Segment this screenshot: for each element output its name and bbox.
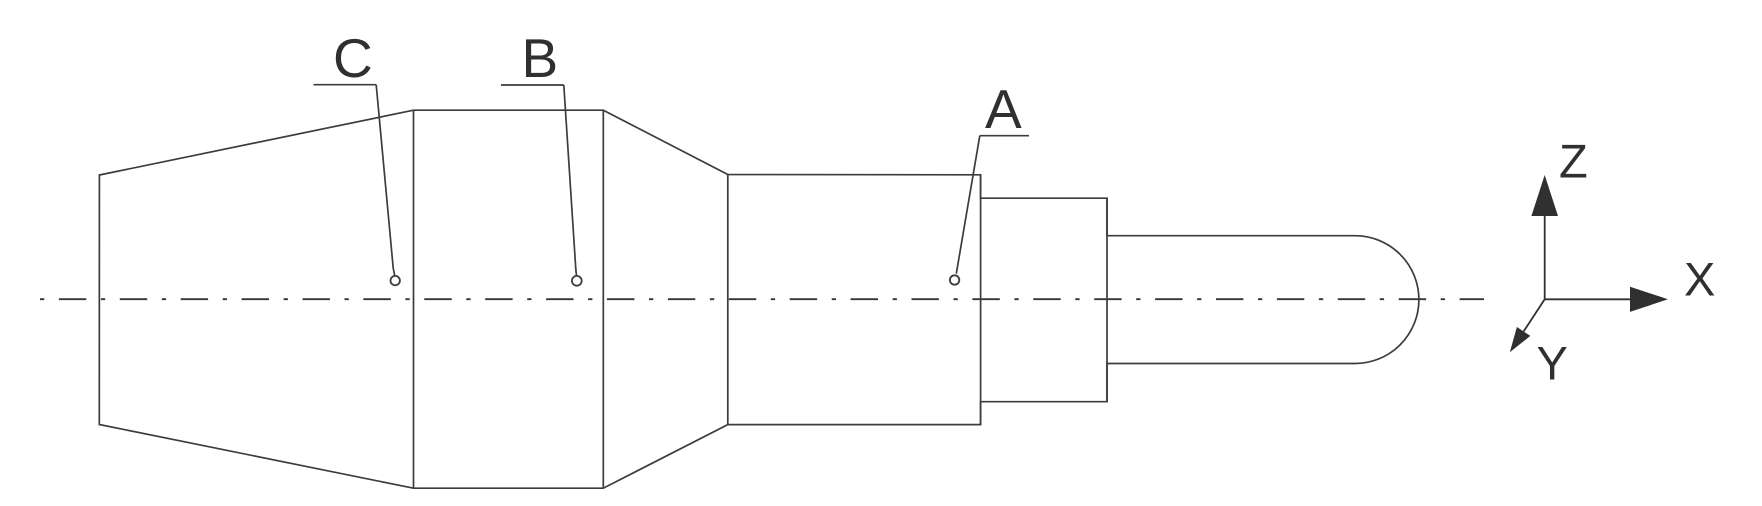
datum point B circle <box>572 276 582 286</box>
face edge at x=980.6 <box>980 175 982 425</box>
label A underline <box>980 135 1029 137</box>
label A leader <box>956 136 980 274</box>
svg-text:X: X <box>1684 253 1715 306</box>
svg-text:B: B <box>522 27 559 89</box>
label C underline <box>314 84 377 86</box>
svg-text:C: C <box>333 27 373 89</box>
coordinate triad: Z axis line <box>1544 214 1546 299</box>
face edge at x=603.3 <box>602 110 604 488</box>
face edge at x=1107 <box>1106 198 1108 402</box>
label B leader <box>564 85 577 276</box>
Y axis line <box>1524 299 1545 331</box>
Z axis arrowhead <box>1531 175 1558 216</box>
face edge at x=413.5 <box>413 110 415 488</box>
part silhouette (stepped shaft body) <box>99 110 1419 488</box>
svg-text:Z: Z <box>1559 135 1588 188</box>
Y axis arrowhead <box>1510 327 1531 352</box>
label B underline <box>501 84 564 86</box>
datum point C circle <box>391 276 400 285</box>
datum point A circle <box>950 275 959 284</box>
svg-text:Y: Y <box>1537 337 1568 390</box>
X axis line <box>1545 298 1632 300</box>
centerline (dash-dot axis) <box>40 298 1484 300</box>
label C leader <box>376 85 395 276</box>
face edge at x=727.8 <box>727 175 729 425</box>
X axis arrowhead <box>1630 287 1668 312</box>
svg-text:A: A <box>985 78 1022 140</box>
